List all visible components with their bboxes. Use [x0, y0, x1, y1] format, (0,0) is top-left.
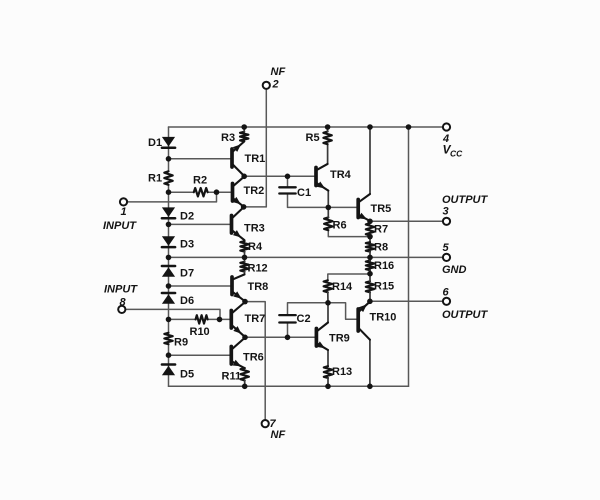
wire — [244, 175, 314, 177]
transistor TR2 — [231, 184, 235, 202]
svg-text:R10: R10 — [190, 326, 210, 338]
node R8-R16 — [367, 255, 373, 261]
resistor R8 — [366, 242, 374, 251]
wire — [244, 89, 267, 207]
resistor R2 — [194, 188, 208, 196]
diode D3 — [162, 236, 175, 246]
wire — [328, 230, 370, 236]
resistor R3 — [240, 132, 248, 142]
wire — [370, 300, 443, 302]
wire — [169, 126, 444, 128]
svg-text:CC: CC — [450, 149, 463, 159]
resistor R9 — [164, 333, 172, 344]
node R1-R2 — [166, 189, 172, 195]
svg-text:TR1: TR1 — [245, 153, 266, 165]
svg-text:TR10: TR10 — [370, 312, 397, 324]
node R9-D5 — [166, 352, 172, 358]
resistor R12 — [240, 262, 248, 272]
wire — [327, 350, 329, 366]
svg-text:TR5: TR5 — [371, 203, 392, 215]
node C1 top — [285, 174, 291, 180]
node R11 bottom — [242, 384, 248, 390]
svg-text:R8: R8 — [374, 242, 388, 254]
node TR8-TR7 — [242, 299, 248, 305]
wire — [169, 256, 444, 258]
svg-text:OUTPUT: OUTPUT — [442, 194, 489, 206]
resistor R16 — [366, 261, 374, 271]
pin 5 GND — [443, 254, 450, 261]
pin 1 INPUT — [120, 198, 127, 205]
resistor R6 — [324, 217, 332, 230]
svg-text:INPUT: INPUT — [103, 220, 137, 232]
wire — [168, 185, 170, 333]
resistor R10 — [196, 315, 208, 323]
node C2 bottom — [285, 335, 291, 341]
wire — [208, 318, 230, 320]
diode D7 — [162, 265, 175, 268]
wire — [327, 190, 329, 207]
node TR4 emitter — [326, 205, 332, 211]
svg-text:TR6: TR6 — [243, 352, 264, 364]
wire — [328, 303, 356, 320]
svg-text:D3: D3 — [180, 238, 194, 250]
node bus top — [406, 124, 412, 130]
wire — [369, 127, 371, 194]
svg-text:TR3: TR3 — [244, 223, 265, 235]
pin 7 NF — [262, 420, 269, 427]
transistor TR1 — [230, 149, 234, 167]
wire — [169, 223, 230, 225]
svg-text:INPUT: INPUT — [104, 284, 138, 296]
node D7-D6 — [166, 283, 172, 289]
node R16-R15 — [367, 271, 373, 277]
svg-text:R6: R6 — [333, 220, 347, 232]
node R15-TR10 — [367, 299, 373, 305]
resistor R4 — [240, 241, 248, 251]
capacitor C2 — [279, 314, 295, 316]
wire — [208, 191, 231, 193]
svg-text:8: 8 — [120, 297, 127, 309]
resistor R11 — [241, 368, 249, 380]
svg-text:TR8: TR8 — [248, 281, 269, 293]
pin 4 VCC — [443, 123, 450, 130]
svg-text:TR2: TR2 — [244, 185, 265, 197]
resistor R7 — [366, 223, 374, 235]
node input8-R10 — [217, 317, 223, 323]
wire — [327, 144, 329, 164]
svg-text:D5: D5 — [180, 368, 194, 380]
diode D2 — [162, 207, 175, 217]
wire — [370, 220, 443, 222]
node TR10 collector rail — [367, 384, 373, 390]
wire — [127, 192, 217, 202]
node TR5 emitter — [367, 219, 373, 225]
node TR1-TR2 collectors — [241, 174, 247, 180]
diode D1 — [162, 137, 175, 147]
node TR2 emitter — [241, 204, 247, 210]
transistor TR4 — [314, 168, 318, 186]
svg-text:R2: R2 — [193, 175, 207, 187]
svg-text:R12: R12 — [248, 263, 268, 275]
svg-text:R15: R15 — [374, 281, 394, 293]
svg-text:7: 7 — [270, 418, 277, 430]
resistor R1 — [164, 171, 172, 185]
pin 6 OUTPUT — [443, 298, 450, 305]
wire — [369, 340, 371, 387]
svg-text:6: 6 — [443, 287, 450, 299]
wire — [168, 344, 170, 386]
resistor R13 — [324, 366, 332, 378]
svg-text:D7: D7 — [180, 267, 194, 279]
svg-text:R16: R16 — [374, 260, 394, 272]
svg-text:R5: R5 — [306, 132, 320, 144]
svg-text:R11: R11 — [222, 371, 242, 383]
svg-text:C2: C2 — [297, 313, 311, 325]
svg-text:R3: R3 — [221, 132, 235, 144]
wire — [169, 191, 194, 193]
svg-text:TR7: TR7 — [245, 313, 266, 325]
pin 8 INPUT — [118, 306, 125, 313]
svg-text:2: 2 — [272, 79, 279, 91]
svg-text:TR9: TR9 — [329, 333, 350, 345]
wire — [408, 127, 410, 386]
node TR5 collector rail — [367, 124, 373, 130]
svg-text:GND: GND — [442, 264, 467, 276]
node R5 top — [325, 124, 331, 130]
svg-text:5: 5 — [443, 242, 450, 254]
svg-text:R9: R9 — [174, 336, 188, 348]
transistor TR6 — [229, 347, 233, 365]
node R10 left — [166, 317, 172, 323]
wire — [328, 274, 370, 280]
svg-text:NF: NF — [271, 66, 286, 78]
diode D6 — [162, 292, 175, 295]
svg-text:D1: D1 — [148, 137, 162, 149]
svg-text:TR4: TR4 — [330, 169, 352, 181]
svg-text:R1: R1 — [148, 173, 162, 185]
diode D5 — [162, 363, 175, 366]
svg-text:R14: R14 — [332, 281, 353, 293]
node input1-R2 — [214, 189, 220, 195]
transistor TR8 — [230, 277, 234, 295]
svg-text:D2: D2 — [180, 210, 194, 222]
node D2-D3 — [166, 222, 172, 228]
wire — [288, 303, 329, 314]
transistor TR5 — [356, 200, 360, 218]
svg-text:R13: R13 — [332, 366, 352, 378]
node R3 top — [241, 124, 247, 130]
svg-text:OUTPUT: OUTPUT — [442, 309, 489, 321]
wire — [327, 303, 329, 323]
wire — [168, 127, 170, 171]
transistor TR9 — [315, 329, 319, 347]
svg-text:D6: D6 — [180, 295, 194, 307]
transistor TR7 — [229, 311, 233, 329]
svg-text:R7: R7 — [374, 224, 388, 236]
transistor TR3 — [230, 216, 234, 234]
node R4-R12 — [242, 255, 248, 261]
svg-text:1: 1 — [121, 206, 127, 218]
capacitor C1 — [279, 186, 295, 188]
pin 3 OUTPUT — [443, 218, 450, 225]
wire — [169, 354, 230, 356]
wire — [169, 385, 409, 387]
node D3 mid-rail — [166, 255, 172, 261]
node R7-R8 — [367, 234, 373, 240]
resistor R14 — [324, 280, 332, 292]
svg-text:R4: R4 — [248, 241, 263, 253]
wire — [288, 195, 357, 208]
node R14-C2 — [325, 300, 331, 306]
wire — [169, 285, 231, 287]
wire — [125, 309, 220, 319]
wire — [287, 176, 289, 186]
node TR7-TR6 — [242, 335, 248, 341]
wire — [169, 318, 196, 320]
wire — [245, 336, 315, 338]
node R13 bottom — [325, 384, 331, 390]
wire — [287, 324, 289, 338]
resistor R5 — [323, 132, 331, 145]
transistor TR10 — [356, 309, 360, 331]
resistor R15 — [366, 281, 374, 292]
pin 2 NF — [263, 82, 270, 89]
node D1-R1 — [166, 156, 172, 162]
svg-text:NF: NF — [271, 429, 286, 441]
svg-text:C1: C1 — [297, 187, 311, 199]
wire — [169, 158, 231, 160]
svg-text:3: 3 — [443, 206, 449, 218]
wire — [245, 302, 265, 421]
